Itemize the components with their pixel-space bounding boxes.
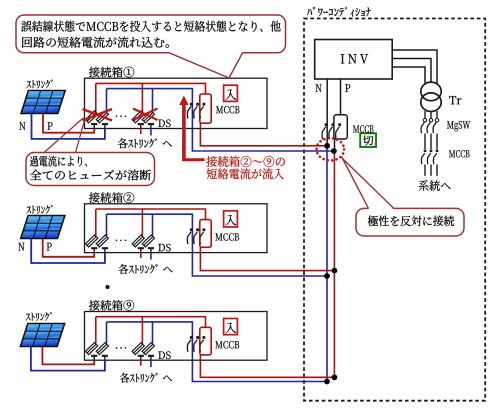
ellipsis dots between fuse groups box 2 — [116, 239, 118, 241]
callout: polarity reversed bubble — [356, 208, 464, 236]
panel1 N wire (blue) — [32, 114, 105, 139]
fuse F13 body (P) — [132, 111, 144, 123]
MCCB body loop (red) box 1 — [200, 94, 211, 123]
label box1 — [89, 67, 134, 78]
MCCB 3-pole contacts in box 2 — [190, 228, 193, 231]
disconnector DS blade under fuse F14 — [148, 123, 154, 125]
fuse F22 body (N) — [96, 235, 108, 247]
junction box 9 P bus wire (red) — [96, 317, 206, 328]
disconnector DS blade under fuse F23 — [138, 247, 144, 249]
disconnector DS blade under fuse F12 — [102, 123, 108, 125]
label string2 — [26, 205, 52, 214]
ON indicator red box 9 — [224, 319, 238, 335]
ON indicator red box 1 — [224, 85, 238, 101]
inverter INV box — [315, 40, 393, 80]
junction box 1 P bus wire (red) — [96, 83, 206, 94]
junction box 2 enclosure — [85, 204, 268, 253]
MCCB body loop (red) box 2 — [200, 220, 211, 248]
fuse F92 body (N) — [96, 343, 108, 355]
MCCB output wire down box 2 — [199, 247, 201, 252]
reversed polarity dotted ellipse — [317, 138, 345, 160]
callout2 line2 — [30, 170, 151, 181]
panel2 N wire (blue) — [31, 239, 105, 264]
label to-grid — [419, 180, 451, 191]
fuse F14 body (N) — [142, 111, 154, 123]
callout: fuses melted bubble — [26, 153, 155, 186]
label box2 — [89, 192, 134, 203]
wires transformer to MgSW — [424, 111, 426, 119]
fuse F21 body (P) — [85, 235, 97, 247]
box2 N output wire — [192, 253, 327, 276]
PV string panel 2 — [21, 216, 65, 239]
fuse F94 lead wire — [152, 322, 154, 344]
ON char box1 — [225, 89, 236, 100]
MCCB output wire down box 1 — [199, 123, 201, 128]
box1 N output wire (blue, reversed to P node) — [192, 129, 334, 152]
label MCCB pcs — [353, 125, 373, 132]
ellipsis dots between fuse groups box 9 — [116, 347, 118, 349]
OFF char pcs — [363, 136, 373, 146]
ON char box9 — [225, 322, 236, 333]
ellipsis dots between fuse groups box 1 — [116, 115, 118, 117]
label DS box9 — [158, 351, 170, 359]
fuse F91 body (P) — [85, 343, 97, 355]
fuse F23 body (P) — [132, 235, 144, 247]
label MCCB box2 — [215, 233, 239, 240]
wires MgSW to grid MCCB — [424, 134, 426, 150]
callout1 text line2 — [22, 37, 169, 48]
label power conditioner — [307, 7, 371, 17]
junction node dots — [324, 143, 330, 149]
label N panel2 — [18, 243, 24, 251]
panel1 P wire (red) — [43, 114, 94, 133]
box9 P output wire — [200, 360, 334, 377]
callout: mis-wiring warning bubble — [16, 15, 286, 53]
MCCB 3-pole contacts in box 9 — [190, 336, 193, 339]
label to-each-string box1 — [118, 138, 172, 148]
label DS box1 — [158, 119, 170, 127]
label INV — [341, 54, 368, 63]
DC bus P vertical (red) — [333, 151, 335, 377]
panel9 N wire (blue) — [31, 347, 105, 371]
disconnector DS blade under fuse F92 — [102, 355, 108, 357]
fuse F24 lead wire — [152, 214, 154, 236]
junction box 1 enclosure — [85, 78, 268, 128]
label P panel2 — [47, 243, 52, 251]
short-circuit current arrow into box1 — [179, 96, 204, 162]
label N panel1 — [19, 122, 25, 130]
AC wires INV to transformer — [392, 50, 437, 84]
label MgSW — [447, 121, 470, 131]
label DS box2 — [158, 244, 170, 252]
fuse F13 lead wire — [141, 83, 143, 112]
label P panel1 — [47, 122, 52, 130]
label to-each-string box2 — [119, 264, 173, 274]
wires MCCB to grid — [424, 165, 426, 176]
fuse F14 lead wire — [152, 89, 154, 112]
callout2 line1 — [30, 156, 87, 167]
label to-each-string box9 — [120, 373, 172, 383]
junction box 9 enclosure — [85, 312, 268, 361]
disconnector DS blade under fuse F91 — [91, 355, 97, 357]
fuse F22 lead wire — [106, 214, 108, 236]
INV P input wire — [340, 79, 342, 115]
fuse F94 body (N) — [142, 343, 154, 355]
string stub wires below box 2 — [140, 253, 142, 259]
fuse F12 body (N) — [96, 111, 108, 123]
box9 N output wire — [192, 360, 327, 381]
fuse F24 body (N) — [142, 235, 154, 247]
fuse F91 lead wire — [95, 317, 97, 344]
ON char box2 — [225, 215, 236, 226]
callout4 text — [368, 216, 454, 227]
box1 P output wire (red, reversed to N node) — [200, 129, 327, 146]
ON indicator red box 2 — [224, 211, 238, 227]
panel2 P wire (red) — [43, 239, 94, 257]
blown-fuse X mark group1 — [83, 109, 113, 121]
disconnector DS blade under fuse F11 — [91, 123, 97, 125]
fuse F11 lead wire — [95, 83, 97, 112]
MgSW contactor poles — [423, 119, 426, 122]
junction box 2 N bus wire (blue) — [107, 214, 193, 252]
fuse F12 lead wire — [106, 89, 108, 112]
PCS MCCB output wire to node — [334, 139, 336, 151]
fuse F93 lead wire — [141, 317, 143, 344]
label string1 — [26, 79, 52, 88]
disconnector DS blade under fuse F94 — [148, 355, 154, 357]
panel9 P wire (red) — [42, 347, 94, 365]
PCS MCCB poles — [325, 123, 328, 126]
label MCCB box1 — [216, 106, 239, 113]
label box9 — [89, 300, 134, 311]
DC bus N vertical (blue) — [326, 146, 328, 382]
OFF indicator green box — [360, 133, 376, 147]
PV string panel 9 — [20, 324, 64, 347]
INV N input wire — [326, 79, 328, 146]
string stub wires below box 9 — [140, 360, 142, 366]
string stub wires below box 1 — [140, 129, 142, 135]
junction box 2 P bus wire (red) — [96, 209, 206, 220]
fuse F21 lead wire — [95, 209, 97, 236]
PV string panel 1 — [21, 91, 65, 114]
junction box 9 N bus wire (blue) — [107, 322, 193, 360]
disconnector DS blade under fuse F93 — [138, 355, 144, 357]
fuse F11 body (P) — [85, 111, 97, 123]
disconnector DS blade under fuse F24 — [148, 247, 154, 249]
label P inv — [345, 84, 350, 92]
callout1 text line1 — [21, 21, 280, 32]
label MCCB grid — [449, 150, 469, 157]
junction box 1 N bus wire (blue) — [107, 89, 193, 129]
fuse F93 body (P) — [132, 343, 144, 355]
box2 P output wire — [200, 253, 334, 271]
disconnector DS blade under fuse F21 — [91, 247, 97, 249]
transformer Tr — [421, 82, 441, 101]
disconnector DS blade under fuse F13 — [138, 123, 144, 125]
PCS MCCB body loop (black) — [334, 115, 347, 139]
grid-side MCCB poles — [424, 150, 427, 153]
fuse F23 lead wire — [141, 209, 143, 236]
callout pointer lines to blown fuses — [44, 118, 84, 153]
label string9 — [26, 312, 52, 321]
red note line1 — [206, 156, 285, 167]
disconnector DS blade under fuse F22 — [102, 247, 108, 249]
fuse F92 lead wire — [106, 322, 108, 344]
MCCB body loop (red) box 9 — [200, 327, 211, 355]
label N inv — [316, 84, 322, 92]
label Tr — [449, 96, 461, 104]
MCCB output wire down box 9 — [199, 355, 201, 360]
ellipsis dot between box2 and box9 — [106, 285, 110, 289]
power conditioner dashed enclosure — [304, 19, 485, 401]
blown-fuse X mark group2 — [133, 109, 158, 121]
red note line2 — [207, 168, 284, 179]
MCCB 3-pole contacts in box 1 — [190, 103, 193, 106]
label MCCB box9 — [215, 341, 239, 348]
